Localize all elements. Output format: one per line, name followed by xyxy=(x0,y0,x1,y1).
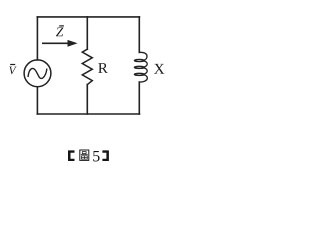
inductor X coil bulge 1 xyxy=(144,61,147,67)
wire right lower xyxy=(138,82,140,114)
AC source V1 circle xyxy=(24,60,51,87)
label Z overbar xyxy=(59,25,64,27)
inductor X coil lens 3 xyxy=(134,73,144,75)
inductor X coil top hook xyxy=(139,52,147,60)
wire middle lower xyxy=(86,85,88,114)
impedance arrow Z line xyxy=(42,40,78,47)
label R xyxy=(98,63,108,73)
caption left lenticular bracket xyxy=(68,150,109,161)
inductor X coil bottom hook xyxy=(139,75,147,82)
label V overbar xyxy=(10,64,15,66)
wire left upper xyxy=(36,17,38,60)
caption numeral 5 xyxy=(93,151,99,162)
wire right upper xyxy=(138,17,140,53)
wire left lower xyxy=(36,87,38,114)
AC source sine wave xyxy=(28,68,47,78)
wire top xyxy=(37,16,139,18)
wire middle upper xyxy=(86,17,88,49)
impedance arrow Z head xyxy=(68,40,78,47)
resistor R zigzag xyxy=(82,49,92,84)
caption hanzi tu (figure) glyph xyxy=(80,150,89,160)
label Z italic xyxy=(56,27,63,36)
inductor X coil lens 1 xyxy=(134,59,144,61)
label X xyxy=(154,64,164,74)
caption right lenticular bracket xyxy=(102,150,109,161)
inductor X coil bulge 2 xyxy=(144,68,147,74)
label V italic xyxy=(9,67,17,75)
inductor X coil lens 2 xyxy=(134,66,144,68)
wire bottom xyxy=(37,113,139,115)
